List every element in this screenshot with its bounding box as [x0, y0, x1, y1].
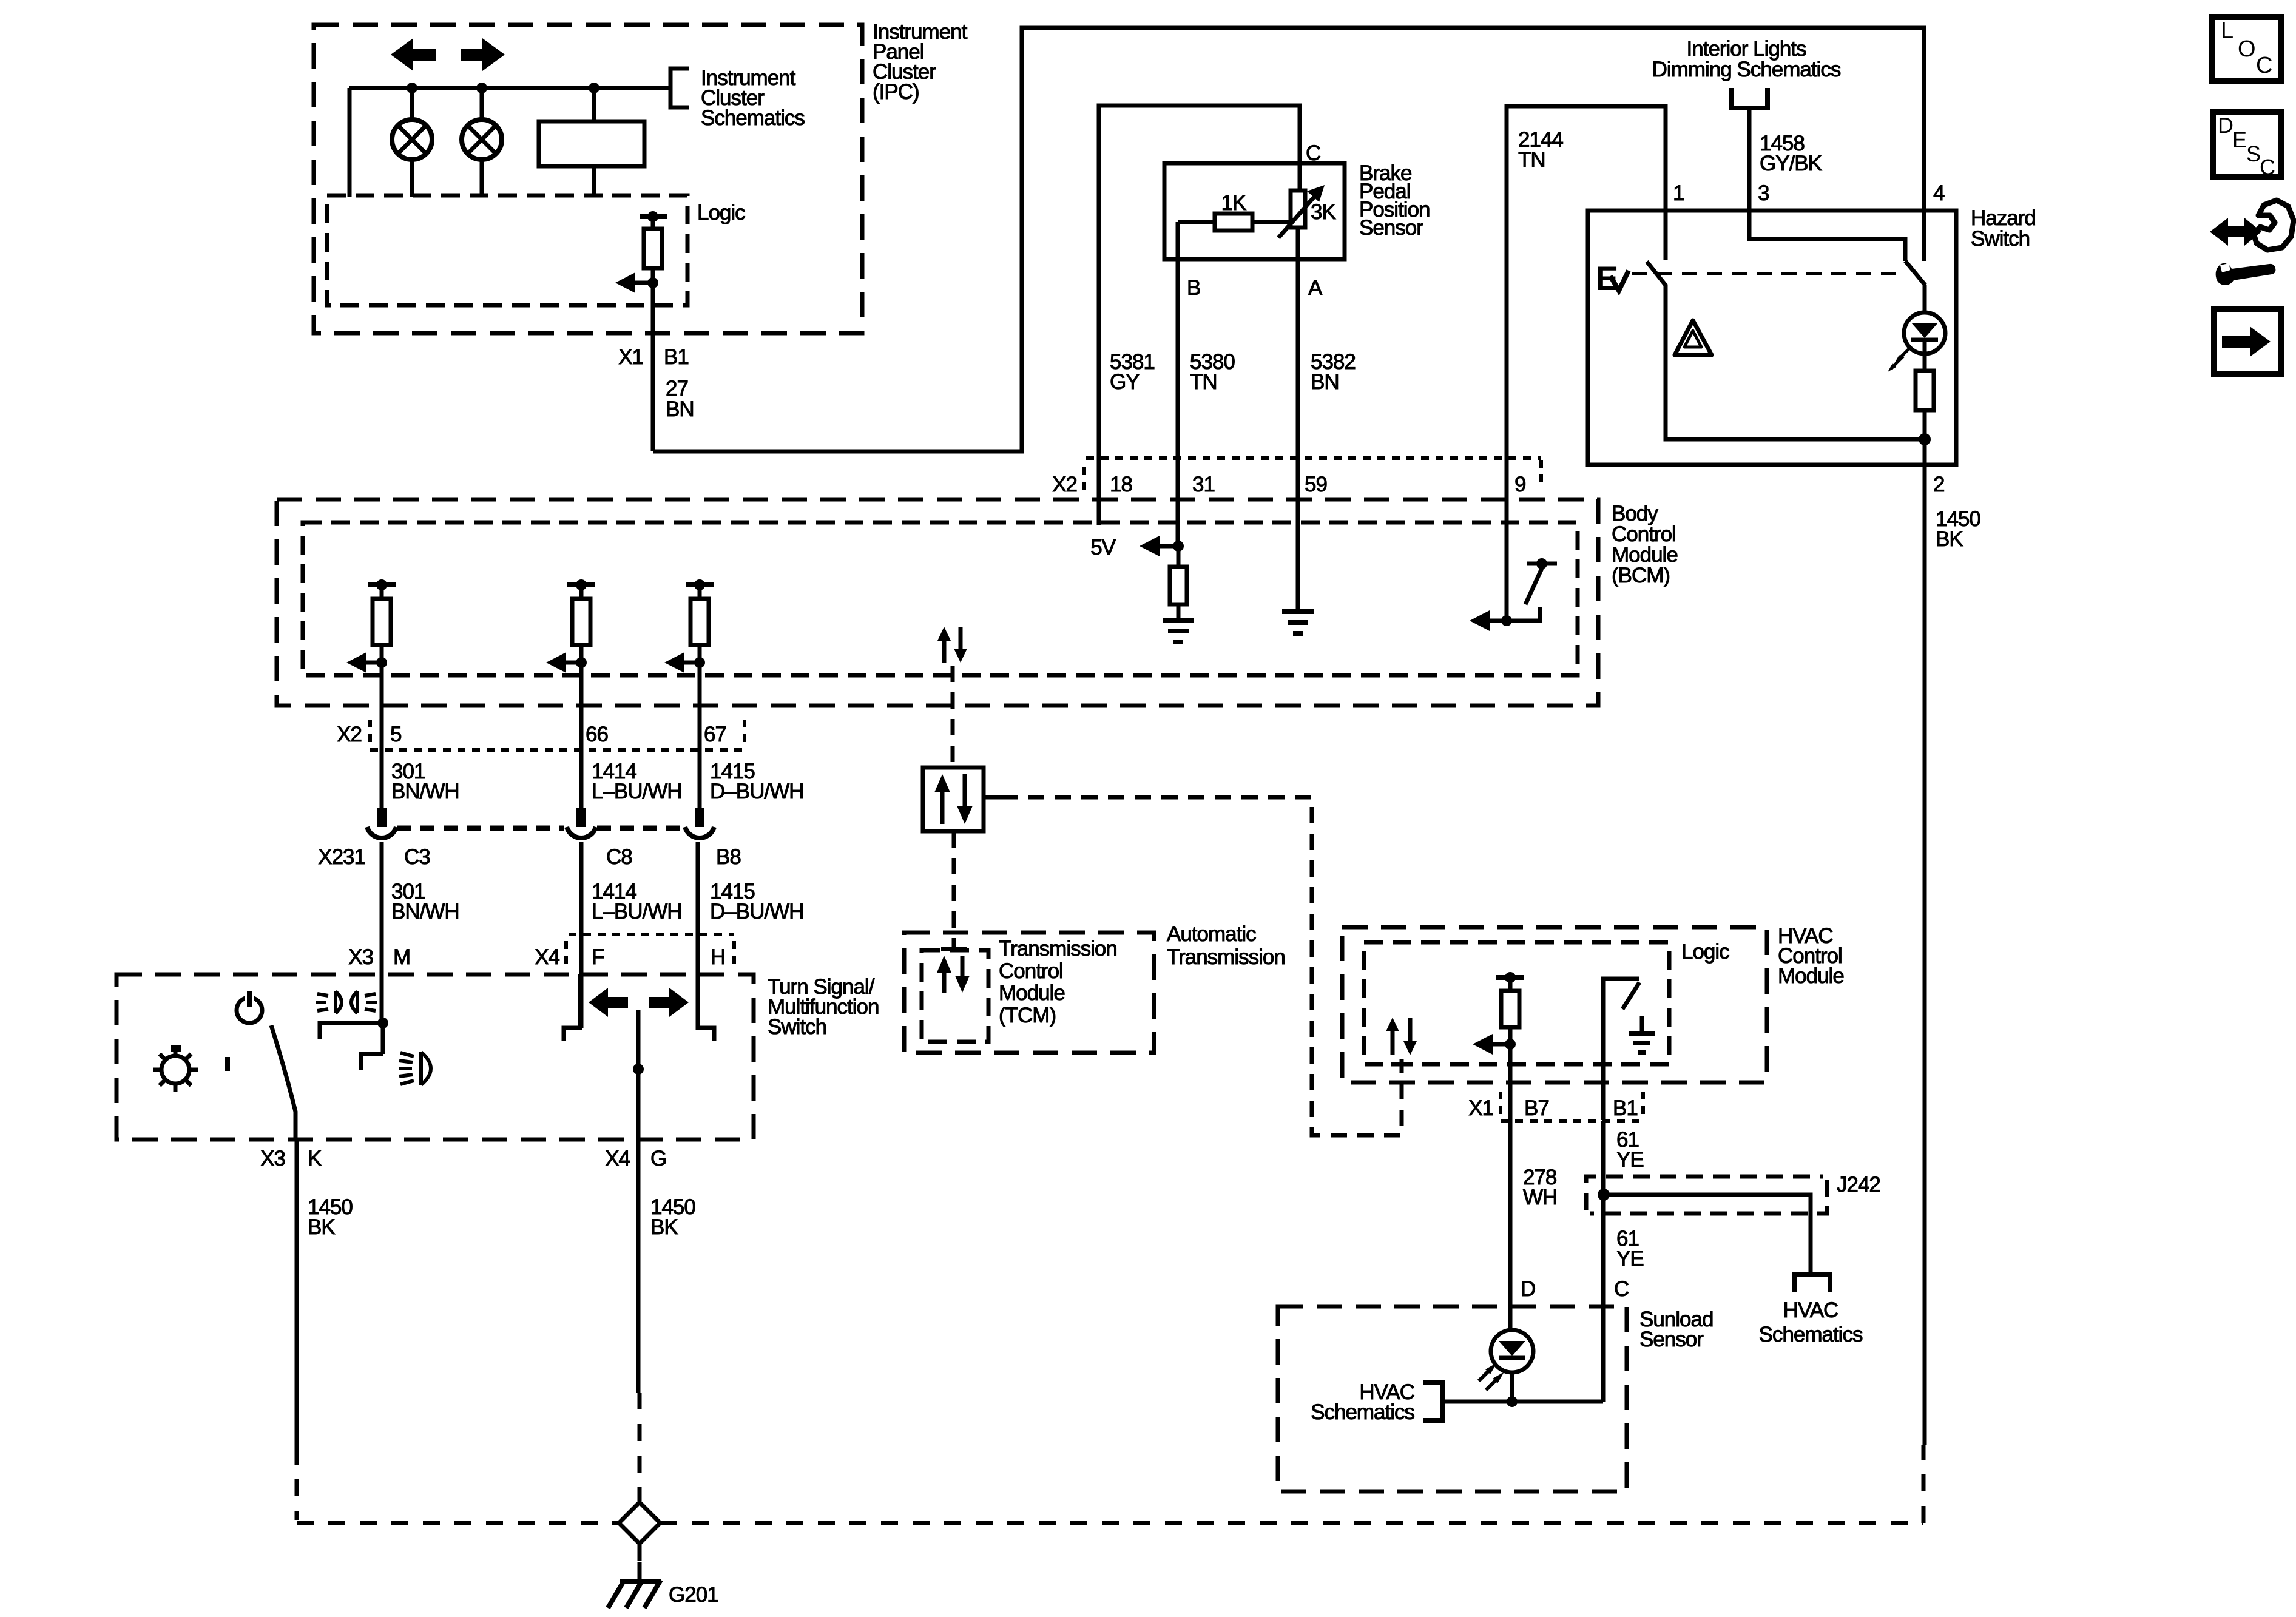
svg-text:X4: X4 [605, 1147, 630, 1170]
icon left-turn arrow [391, 38, 436, 71]
svg-text:L–BU/WH: L–BU/WH [592, 900, 682, 923]
svg-text:5V: 5V [1090, 536, 1116, 559]
svg-text:D–BU/WH: D–BU/WH [710, 900, 803, 923]
svg-text:Module: Module [1778, 964, 1844, 988]
wire pin31 into BCM [1176, 458, 1180, 546]
svg-text:BK: BK [650, 1215, 678, 1239]
svg-text:3K: 3K [1311, 200, 1335, 224]
switch in BCM [1527, 562, 1557, 566]
splice diamond [619, 1502, 660, 1544]
icon box LOC [2212, 17, 2281, 81]
svg-text:(BCM): (BCM) [1612, 564, 1670, 587]
ground internal HVAC [1640, 1016, 1644, 1033]
svg-text:H: H [711, 945, 725, 969]
svg-text:C3: C3 [404, 845, 430, 869]
icon box arrow [2214, 309, 2281, 374]
lamp left indicator [410, 88, 414, 120]
wire G common [636, 1010, 641, 1139]
svg-text:X1: X1 [1468, 1096, 1493, 1120]
svg-text:C: C [1614, 1277, 1629, 1301]
svg-text:31: 31 [1192, 473, 1215, 496]
wire pin59 into BCM [1296, 458, 1300, 612]
svg-text:L: L [2221, 18, 2234, 44]
wire B 5380 TN [1176, 222, 1180, 546]
svg-text:J242: J242 [1837, 1173, 1880, 1197]
lamp right indicator [480, 88, 484, 120]
svg-text:C: C [2260, 155, 2275, 180]
dashed ground bus [295, 1448, 299, 1520]
module box HVAC outer [1342, 927, 1767, 1082]
ground internal BCM 59 [1282, 609, 1314, 614]
module box automatic transmission [904, 933, 1154, 1053]
resistor in hazard switch [1916, 371, 1934, 410]
branch 1414 resistor [567, 582, 595, 587]
ground G201 [638, 1544, 642, 1562]
icon turn signal lever [2210, 218, 2243, 246]
svg-text:Sensor: Sensor [1639, 1328, 1704, 1351]
mechanical link dashed [1632, 272, 1900, 275]
svg-text:K: K [308, 1147, 322, 1170]
svg-text:X3: X3 [348, 945, 373, 969]
svg-text:B8: B8 [716, 845, 741, 869]
svg-text:BN/WH: BN/WH [391, 900, 459, 923]
serial data arrows BCM [942, 638, 947, 663]
serial data junction box [923, 768, 984, 831]
icon wrench [2216, 263, 2276, 285]
svg-text:(IPC): (IPC) [873, 80, 919, 104]
svg-text:Transmission: Transmission [1167, 945, 1285, 969]
LED hazard indicator [1904, 312, 1945, 354]
svg-text:X4: X4 [535, 945, 559, 969]
splice J242 [1586, 1176, 1823, 1210]
svg-text:BK: BK [308, 1215, 335, 1239]
svg-text:66: 66 [586, 723, 608, 746]
photodiode [1491, 1330, 1533, 1372]
svg-text:B7: B7 [1524, 1096, 1549, 1120]
sensor box [1164, 163, 1345, 259]
switch blade right [1905, 261, 1925, 285]
svg-text:4: 4 [1933, 181, 1945, 205]
svg-text:G201: G201 [669, 1583, 718, 1607]
bus wire in sunload sensor [1442, 1400, 1603, 1404]
svg-text:L–BU/WH: L–BU/WH [592, 780, 682, 803]
svg-text:D–BU/WH: D–BU/WH [710, 780, 803, 803]
svg-text:Automatic: Automatic [1167, 922, 1256, 946]
svg-text:BN: BN [666, 397, 694, 421]
wire 1450 BK right [1923, 465, 1927, 1445]
svg-text:C: C [2256, 53, 2272, 78]
svg-text:Sensor: Sensor [1359, 216, 1423, 240]
resistor in IPC logic [640, 214, 667, 219]
wire 2144 TN [1507, 106, 1666, 621]
icon box DESC [2213, 112, 2281, 177]
svg-text:GY: GY [1110, 370, 1140, 394]
branch 301 resistor [368, 582, 396, 587]
wires to multifunction switch [380, 842, 384, 1023]
svg-text:B: B [1187, 276, 1200, 300]
module box IPC [314, 25, 862, 333]
ground internal BCM [1163, 618, 1194, 623]
wire pin9 into BCM [1505, 458, 1509, 621]
svg-text:C8: C8 [606, 845, 632, 869]
serial data wire into TCM [952, 831, 956, 947]
wire photodiode to bus [1510, 1372, 1514, 1402]
module box BCM inner [303, 522, 1578, 675]
svg-text:X1: X1 [618, 345, 643, 369]
connector bracket from interior lights [1731, 88, 1768, 108]
svg-text:18: 18 [1110, 473, 1132, 496]
svg-text:F: F [592, 945, 604, 969]
svg-text:D: D [1521, 1277, 1535, 1301]
svg-text:Schematics: Schematics [1759, 1323, 1863, 1346]
svg-text:A: A [1308, 276, 1323, 300]
serial data arrows HVAC [1391, 1031, 1395, 1055]
svg-text:E: E [2232, 127, 2247, 152]
connector X2 strip [1086, 456, 1541, 460]
svg-text:2: 2 [1933, 473, 1944, 496]
wire M branch [381, 1023, 385, 1054]
svg-text:1K: 1K [1221, 191, 1246, 215]
turn signal contacts F H [564, 974, 580, 1041]
icon fog lamp [399, 1052, 431, 1085]
module box turn signal switch [116, 974, 754, 1139]
module box sunload sensor [1278, 1306, 1627, 1491]
svg-text:X3: X3 [260, 1147, 285, 1170]
wire 61 YE [1601, 1121, 1606, 1402]
serial data wire TCM to HVAC [984, 795, 1001, 800]
branch 1415 resistor [686, 582, 714, 587]
svg-text:B1: B1 [1613, 1096, 1638, 1120]
svg-text:Control: Control [999, 959, 1063, 983]
wire pin4 to LED [1923, 285, 1927, 312]
module box TCM inner [922, 950, 988, 1042]
wire pin18 into BCM [1097, 458, 1101, 525]
svg-text:M: M [393, 945, 410, 969]
svg-text:67: 67 [704, 723, 726, 746]
wire 1458 GY/BK [1749, 108, 1905, 261]
switch blade left (open) [1647, 262, 1925, 439]
wire 1450 BK center [636, 1139, 641, 1393]
svg-text:BN/WH: BN/WH [391, 780, 459, 803]
svg-text:3: 3 [1758, 181, 1769, 205]
svg-text:Switch: Switch [1971, 227, 2030, 251]
svg-text:59: 59 [1305, 473, 1327, 496]
svg-text:Switch: Switch [768, 1015, 826, 1039]
svg-text:(TCM): (TCM) [999, 1004, 1056, 1027]
svg-text:Logic: Logic [697, 201, 745, 224]
svg-text:X2: X2 [337, 723, 362, 746]
svg-text:GY/BK: GY/BK [1760, 152, 1822, 175]
resistor HVAC [1496, 975, 1524, 980]
svg-text:Dimming Schematics: Dimming Schematics [1652, 58, 1841, 81]
warning triangle icon [1675, 320, 1712, 355]
signal arrow left [615, 272, 635, 293]
bracket to HVAC schematics [1423, 1383, 1442, 1420]
svg-text:Transmission: Transmission [999, 937, 1117, 960]
serial data wire to TCM [951, 666, 955, 769]
svg-text:Module: Module [999, 981, 1065, 1005]
svg-text:Schematics: Schematics [701, 106, 805, 130]
logic box IPC [327, 195, 687, 305]
svg-text:BK: BK [1936, 527, 1963, 551]
svg-text:HVAC: HVAC [1783, 1298, 1838, 1322]
svg-text:X231: X231 [318, 845, 365, 869]
connector bracket to Instrument Cluster Schematics [670, 69, 689, 107]
wire 278 WH [1508, 1120, 1513, 1332]
icon right arrow [649, 988, 689, 1017]
icon headlamp switch [161, 1056, 189, 1084]
svg-text:S: S [2246, 141, 2261, 166]
svg-text:B1: B1 [664, 345, 689, 369]
wire 27 BN [651, 340, 655, 451]
svg-text:Schematics: Schematics [1311, 1400, 1414, 1424]
icon left arrow [589, 988, 628, 1017]
svg-text:X2: X2 [1052, 473, 1077, 496]
svg-text:YE: YE [1616, 1247, 1644, 1271]
svg-text:E: E [1596, 259, 1618, 297]
display element [592, 88, 596, 121]
svg-text:WH: WH [1523, 1186, 1557, 1209]
resistor 1K [1178, 220, 1215, 224]
light arrows into photodiode [1479, 1369, 1491, 1381]
light emission arrows [1899, 348, 1910, 359]
module box HVAC logic [1364, 942, 1669, 1064]
potentiometer 3K [1291, 191, 1305, 228]
svg-text:O: O [2238, 36, 2256, 62]
svg-text:1: 1 [1673, 181, 1684, 205]
svg-text:BN: BN [1311, 370, 1339, 394]
svg-text:YE: YE [1616, 1148, 1644, 1172]
wire J242 to HVAC schematics [1604, 1195, 1811, 1275]
icon right-turn arrow [461, 38, 505, 71]
junction dots [407, 83, 417, 93]
icon power symbol [237, 998, 262, 1023]
switch blade headlamp [271, 1025, 295, 1139]
svg-text:D: D [2218, 113, 2234, 138]
wire IPC bus [349, 86, 669, 90]
module box BCM outer [277, 499, 1598, 706]
svg-text:TN: TN [1518, 148, 1545, 172]
wire 1450 BK left [295, 1139, 299, 1448]
wire left branch [348, 88, 352, 197]
svg-text:Logic: Logic [1681, 940, 1729, 964]
wire A 5382 BN [1296, 228, 1300, 612]
resistor BCM pull [1177, 546, 1181, 567]
svg-text:TN: TN [1190, 370, 1217, 394]
hazard switch box [1588, 211, 1956, 465]
svg-text:G: G [650, 1147, 666, 1170]
svg-text:9: 9 [1514, 473, 1525, 496]
wire 5381 GY vertical [1099, 106, 1300, 525]
switch to ground HVAC [1603, 979, 1639, 1120]
serial data arrows TCM [942, 970, 947, 993]
splice X231 connectors [377, 808, 387, 827]
icon DRL lamps [316, 991, 377, 1013]
svg-text:5: 5 [390, 723, 401, 746]
